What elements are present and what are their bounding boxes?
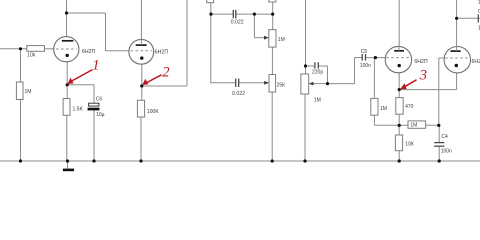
svg-text:0.022: 0.022 xyxy=(231,20,244,26)
svg-text:1М: 1М xyxy=(380,106,387,112)
svg-text:С5: С5 xyxy=(361,49,368,55)
svg-text:1М: 1М xyxy=(278,37,285,43)
svg-text:25К: 25К xyxy=(277,83,286,89)
svg-text:100n: 100n xyxy=(441,149,452,155)
svg-text:1.5K: 1.5K xyxy=(73,106,84,112)
svg-text:0.022: 0.022 xyxy=(232,91,245,97)
svg-text:С4: С4 xyxy=(441,134,448,140)
svg-text:10k: 10k xyxy=(27,53,36,59)
svg-text:220р: 220р xyxy=(312,70,323,76)
svg-text:10µ: 10µ xyxy=(96,112,105,118)
svg-text:10К: 10К xyxy=(405,142,414,148)
svg-text:6Н2П: 6Н2П xyxy=(472,59,480,65)
svg-text:100n: 100n xyxy=(360,63,371,69)
svg-text:100K: 100K xyxy=(147,109,159,115)
svg-text:С6: С6 xyxy=(96,97,103,103)
svg-text:2: 2 xyxy=(162,64,169,80)
svg-text:1: 1 xyxy=(92,57,99,73)
svg-text:3: 3 xyxy=(419,68,427,84)
svg-text:6Н2П: 6Н2П xyxy=(155,50,169,56)
svg-text:1М: 1М xyxy=(25,89,32,95)
svg-text:1М: 1М xyxy=(314,97,321,103)
svg-text:1М: 1М xyxy=(410,123,417,129)
svg-text:6Н2П: 6Н2П xyxy=(82,49,96,55)
svg-text:470: 470 xyxy=(405,104,414,110)
svg-text:6Н2П: 6Н2П xyxy=(414,59,428,65)
